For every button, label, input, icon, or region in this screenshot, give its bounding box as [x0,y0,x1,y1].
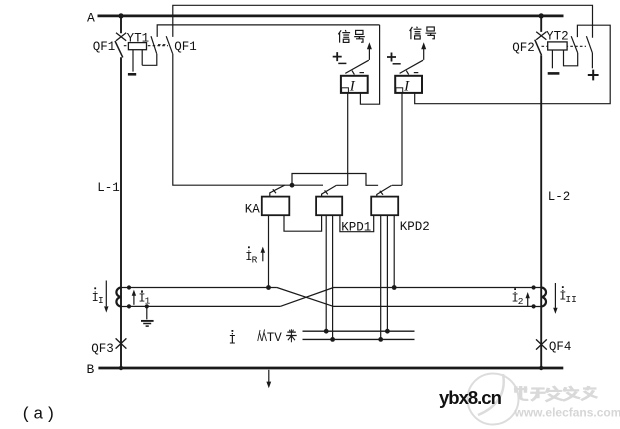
watermark elecfans text [514,386,598,401]
svg-text:QF1: QF1 [93,40,116,54]
wire relay1 to KPD1 blade [336,93,347,185]
wire KA to KPD1 (bottom link) [284,215,322,231]
contact KA (blade) [270,185,285,196]
mechanical link QF1 (dashed) [124,45,168,47]
breaker QF1 [115,33,126,58]
label L-2 [548,190,571,204]
wire relay2 to KPD2 blade [392,93,402,185]
wire KA coil to CT row (IR branch) [268,215,270,287]
junction dot KA leg / CT wire [266,285,271,290]
junction dot KPD2 leg / CT wire [392,285,397,290]
wire feeder L-2 [540,16,542,368]
svg-text:KPD2: KPD2 [400,220,430,234]
svg-text:I: I [98,295,104,306]
bus B [98,367,563,370]
wire QF2 aux1 to YT2 [564,50,578,66]
contact QF2 aux1 (blade) [571,36,578,53]
signal relay 1 (upper wire loop) [360,25,379,104]
label III with arrow (right primary current) [559,289,577,305]
arrow below bus B [268,370,270,382]
wire TA1 secondary bottom [129,305,280,307]
TA2 secondary terminal dots [532,285,536,308]
signal relay 1 current symbol I [349,79,356,95]
svg-text:ybx8.cn: ybx8.cn [439,387,502,408]
TV wires [303,331,415,339]
label I (near ground) [229,333,237,348]
label KA [245,202,261,216]
current transformer TA1 [116,288,121,307]
junction dot bus B / feeder L-2 [539,366,543,370]
signal relay 2 contact blade and arrow [400,48,424,75]
label IR with arrow [245,249,257,266]
TV junction dots [324,329,390,342]
junction dot bus A / feeder L-1 [118,13,123,18]
wire feeder L-1 [120,16,122,368]
relay KPD1 coil box [316,197,342,216]
breaker QF4 [536,339,547,349]
TA1 secondary terminal dots [127,285,131,308]
svg-text:L-2: L-2 [548,190,571,204]
svg-text:QF1: QF1 [174,40,197,54]
svg-text:TV: TV [267,331,283,345]
svg-text:A: A [87,10,95,25]
svg-text:B: B [87,362,95,377]
contact QF1 aux1 (blade) [151,36,157,54]
svg-text:QF3: QF3 [91,342,114,356]
svg-text:R: R [252,255,258,266]
label QF1 aux [174,40,197,54]
contact QF2 aux2 (blade) [586,36,592,53]
svg-text:www.elecfans.com: www.elecfans.com [514,406,620,420]
signal relay 1 contact blade and arrow [345,48,369,75]
svg-text:KA: KA [245,202,261,216]
signal relay 2 plus sign [387,53,396,62]
svg-text:YT2: YT2 [546,30,569,44]
wire KPD2 legs to TV [381,215,388,339]
watermark ybx8.cn [439,387,502,408]
trip coil YT1 [128,43,146,72]
current transformer TA2 [541,288,546,307]
wire control rail y25 [157,25,379,37]
label KPD1 [341,220,371,234]
signal relay 2 current symbol I [403,79,410,95]
wire KPD1 legs to TV [326,215,332,339]
wire YT1 to contact QF1 aux1 [142,54,157,66]
node A label [87,10,95,25]
dots above dotted-I labels [94,246,563,331]
wire relay2 loop to QF2 aux1 [415,25,611,104]
svg-text:İ: İ [229,333,237,348]
ground [141,306,154,326]
signal relay 2 minus sign [393,63,401,65]
plus terminal QF2 [588,70,599,81]
label QF1 [93,40,116,54]
contact QF1 aux2 (blade) [166,36,172,53]
wire QF2 aux2 to plus [591,53,593,68]
breaker QF2 [535,32,547,55]
svg-text:L-1: L-1 [97,181,120,195]
label KPD2 [400,220,430,234]
svg-text:YT1: YT1 [127,31,150,45]
ground tap junction dot [145,304,149,308]
negative terminal of YT2 [548,72,560,75]
label YT1 [127,31,150,45]
wire KPD1 to KPD2 (bottom link) [340,215,374,232]
junction dot bus A / feeder L-2 [539,13,544,18]
svg-text:I: I [403,79,410,95]
svg-text:(a): (a) [21,406,58,425]
label 信号 relay2 [410,27,422,40]
bus A [98,14,564,17]
breaker QF3 [116,338,127,348]
junction dot bus B / feeder L-1 [119,366,123,370]
label QF4 [549,340,572,354]
contact KPD1 (blade) [322,185,337,196]
signal relay 2 coil box [395,76,422,93]
svg-text:QF4: QF4 [549,340,572,354]
crossover wires [277,288,334,307]
svg-text:I: I [349,79,356,95]
wire CT row bottom right [334,305,534,307]
label L-1 [97,181,120,195]
label 从TV来 [258,329,267,341]
wire QF1 aux2 to KA row [173,54,323,186]
svg-text:II: II [565,294,576,305]
label I2 with arrow [512,291,524,307]
watermark logo circle [468,374,519,425]
label 信号 relay1 [338,30,350,43]
signal relay 1 coil box [341,76,368,93]
mechanical link QF2 (dashed) [542,45,587,47]
wire CT row top right [334,287,534,289]
label I1 with arrow [138,290,150,306]
wire TA1 secondary top [129,287,277,289]
relay KA coil box [262,197,290,216]
wire top rail [173,5,593,37]
relay KPD2 coil box [371,197,398,216]
wire branch dot to KPD2 [292,174,378,186]
label QF2 [512,41,535,55]
svg-text:QF2: QF2 [512,41,535,55]
junction dot KA feed [290,183,295,188]
trip coil YT2 [548,42,567,68]
label II with arrow (left primary current) [92,290,104,306]
node B label [87,362,95,377]
svg-text:2: 2 [518,296,524,307]
mechanical link QF1 aux (dashed) [158,44,166,46]
negative terminal of YT1 [128,73,136,76]
label YT2 [546,30,569,44]
svg-text:1: 1 [145,296,151,307]
signal relay 1 plus sign [333,52,342,61]
label (a) [21,406,58,425]
contact KPD2 (blade) [377,185,392,196]
label QF3 [91,342,114,356]
wire KPD2 leg to CT row [393,215,395,287]
signal relay 1 minus sign [338,62,346,64]
